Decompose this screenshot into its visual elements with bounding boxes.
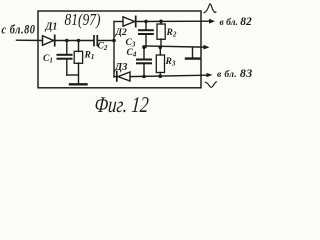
- node junction C1: [65, 39, 69, 43]
- wire D1 to C2: [54, 40, 94, 42]
- svg-text:Д3: Д3: [114, 62, 127, 73]
- wire node to D3 cathode: [114, 76, 117, 78]
- capacitor C3: [139, 30, 153, 34]
- wire down to R2: [160, 21, 162, 24]
- node junction R3: [159, 45, 163, 49]
- block box 81(97): [38, 11, 201, 88]
- pulse symbol: [204, 4, 216, 13]
- wire down to C1: [66, 41, 68, 55]
- wire C4 to bottom rail: [143, 64, 145, 77]
- node junction R1: [77, 39, 81, 43]
- wire C3 to rail: [145, 35, 147, 48]
- diode D1: [43, 35, 55, 45]
- wire node vertical: [113, 22, 115, 78]
- wire down to C3: [145, 21, 147, 29]
- wire R1 to ground: [78, 63, 80, 84]
- arrow output 83: [207, 73, 213, 77]
- node A junction: [112, 39, 116, 43]
- wire down to C4: [143, 47, 145, 59]
- svg-text:С4: С4: [127, 48, 137, 59]
- svg-text:Д2: Д2: [115, 28, 127, 38]
- svg-text:в бл. 82: в бл. 82: [220, 16, 253, 28]
- node junction C3: [144, 20, 148, 24]
- capacitor C1: [58, 55, 72, 59]
- diode D3: [117, 72, 130, 81]
- ground mid stem: [192, 47, 194, 58]
- svg-text:С2: С2: [98, 42, 108, 53]
- svg-text:Д1: Д1: [45, 22, 58, 33]
- ground rail mid: [144, 46, 204, 47]
- wire input from block 80: [17, 39, 43, 41]
- capacitor C2: [94, 36, 97, 46]
- svg-text:R1: R1: [84, 51, 95, 62]
- wire C2 to node: [97, 40, 114, 42]
- wire C1 to R1 bottom: [67, 74, 79, 76]
- svg-text:Фиг. 12: Фиг. 12: [94, 93, 150, 118]
- resistor R2: [157, 24, 165, 39]
- wire R3 to bottom rail: [159, 73, 161, 77]
- node junction R2: [159, 20, 163, 24]
- svg-text:81(97): 81(97): [65, 11, 101, 30]
- svg-text:R3: R3: [165, 57, 176, 68]
- ground mid bar: [186, 57, 200, 59]
- diode D2: [123, 16, 136, 26]
- wave symbol: [205, 82, 216, 88]
- svg-text:С3: С3: [126, 38, 136, 49]
- wire D2 to output 82: [135, 20, 210, 22]
- node junction C4: [142, 45, 146, 49]
- arrow rail mid: [204, 45, 210, 50]
- svg-text:с бл.80: с бл.80: [2, 24, 36, 37]
- wire C1 bottom: [66, 60, 68, 76]
- wire down to R3: [159, 47, 161, 55]
- node junction C4 bottom: [142, 75, 146, 79]
- ground left: [70, 83, 87, 85]
- svg-text:R2: R2: [166, 28, 177, 39]
- node junction R3 bottom: [159, 74, 163, 78]
- wire D3 to output 83: [130, 75, 207, 76]
- svg-text:С1: С1: [43, 54, 53, 65]
- resistor R3: [156, 55, 164, 73]
- resistor R1: [74, 51, 82, 63]
- capacitor C4: [137, 60, 151, 64]
- arrow output 82: [209, 19, 215, 24]
- wire R2 to rail: [160, 39, 162, 47]
- wire to D2: [114, 21, 123, 23]
- wire down to R1: [78, 41, 80, 52]
